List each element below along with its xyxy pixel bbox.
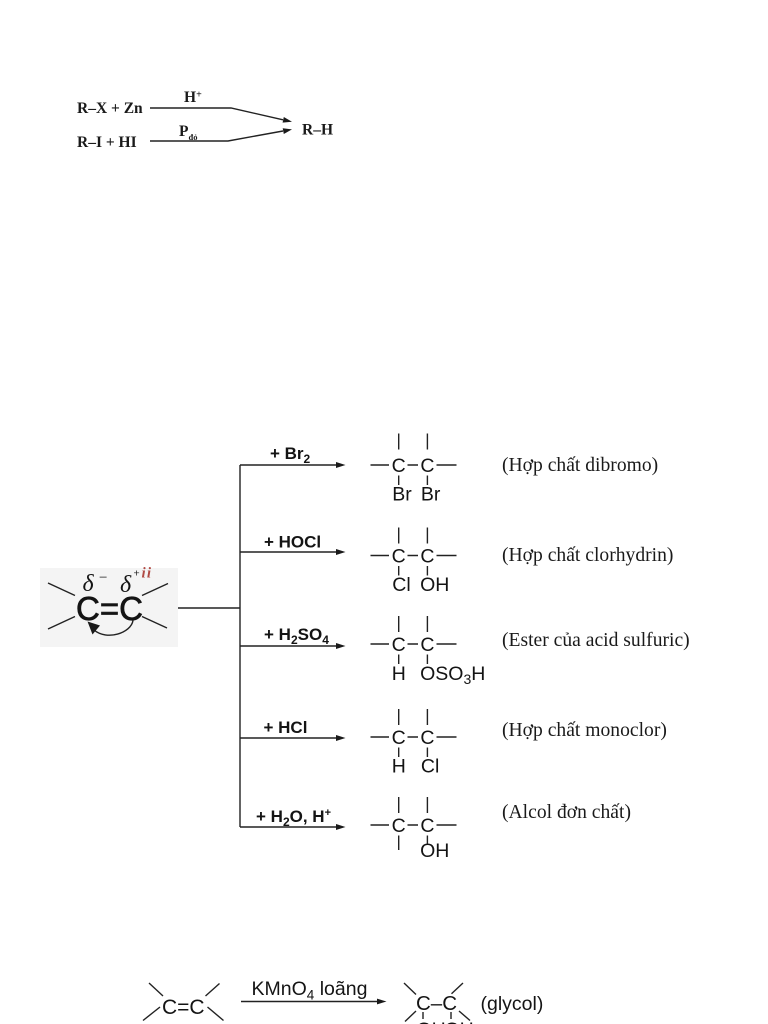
svg-text:OH: OH xyxy=(445,1019,474,1024)
svg-text:C: C xyxy=(420,634,434,656)
svg-text:+ H2O, H+: + H2O, H+ xyxy=(256,807,331,829)
svg-text:OH: OH xyxy=(417,1019,446,1024)
bond upper-right xyxy=(206,984,220,997)
svg-text:(glycol): (glycol) xyxy=(481,993,544,1015)
bond upper-left xyxy=(48,583,75,596)
svg-text:H: H xyxy=(392,663,406,685)
svg-text:+ HOCl: + HOCl xyxy=(264,533,321,552)
arrow from R–I+HI to R–H xyxy=(150,128,292,141)
tick below left C xyxy=(422,1012,424,1019)
vertical branch line xyxy=(239,465,241,827)
svg-text:(Ester của acid sulfuric): (Ester của acid sulfuric) xyxy=(502,630,690,651)
product structure row 2 (clorhydrin) xyxy=(371,528,457,597)
svg-text:R–I + HI: R–I + HI xyxy=(77,134,137,151)
arrow row 5 xyxy=(240,824,346,830)
svg-text:C: C xyxy=(392,634,406,656)
arrow row 1 xyxy=(240,462,346,468)
product structure row 3 (sulfate ester) xyxy=(371,616,486,687)
svg-text:Br: Br xyxy=(392,484,412,506)
svg-text:Cl: Cl xyxy=(421,756,439,778)
connector from alkene to branch line xyxy=(178,607,240,609)
bond upper-left xyxy=(404,983,416,995)
svg-text:Br: Br xyxy=(421,484,441,506)
bond lower-left xyxy=(143,1007,160,1021)
svg-text:(Hợp chất dibromo): (Hợp chất dibromo) xyxy=(502,455,658,476)
bond lower-right xyxy=(459,1011,470,1021)
bond upper-right xyxy=(142,584,168,596)
arrow from R–X+Zn to R–H xyxy=(150,108,292,123)
svg-text:(Hợp chất clorhydrin): (Hợp chất clorhydrin) xyxy=(502,545,673,566)
product structure row 1 (dibromo) xyxy=(371,434,457,506)
bond upper-right xyxy=(452,983,464,994)
svg-text:C: C xyxy=(420,545,434,567)
svg-text:C: C xyxy=(392,815,406,837)
gray panel behind alkene reactant xyxy=(40,568,178,647)
svg-text:ii: ii xyxy=(142,566,153,582)
bond lower-right xyxy=(208,1007,224,1021)
svg-text:+: + xyxy=(134,568,140,580)
arrow row 4 xyxy=(240,735,346,741)
svg-text:C: C xyxy=(392,455,406,477)
svg-text:C: C xyxy=(420,727,434,749)
svg-text:OSO3H: OSO3H xyxy=(420,663,485,687)
bond lower-left xyxy=(48,617,75,630)
KMnO4 loang arrow xyxy=(241,999,387,1005)
svg-text:OH: OH xyxy=(420,840,449,862)
svg-text:R–H: R–H xyxy=(302,122,333,139)
svg-text:−: − xyxy=(99,570,107,586)
svg-text:(Alcol đơn chất): (Alcol đơn chất) xyxy=(502,802,631,823)
bond upper-left xyxy=(149,983,163,996)
svg-text:C: C xyxy=(420,815,434,837)
svg-text:C: C xyxy=(420,455,434,477)
svg-text:C=C: C=C xyxy=(162,996,205,1019)
bond lower-left xyxy=(405,1011,416,1022)
svg-text:C: C xyxy=(392,545,406,567)
svg-text:R–X + Zn: R–X + Zn xyxy=(77,100,143,117)
product structure row 5 (alcohol) xyxy=(371,797,457,862)
svg-text:(Hợp chất monoclor): (Hợp chất monoclor) xyxy=(502,720,667,741)
svg-text:Cl: Cl xyxy=(392,574,410,596)
svg-text:OH: OH xyxy=(420,574,449,596)
arrow row 3 xyxy=(240,643,346,649)
product structure row 4 (monoclor) xyxy=(371,709,457,778)
tick below right C xyxy=(450,1012,452,1019)
bond lower-right xyxy=(142,617,167,629)
svg-text:+ HCl: + HCl xyxy=(264,718,308,737)
curved electron arrow xyxy=(88,621,134,636)
svg-text:C–C: C–C xyxy=(416,992,457,1015)
svg-text:H: H xyxy=(392,756,406,778)
arrow row 2 xyxy=(240,549,346,555)
svg-text:C: C xyxy=(392,727,406,749)
